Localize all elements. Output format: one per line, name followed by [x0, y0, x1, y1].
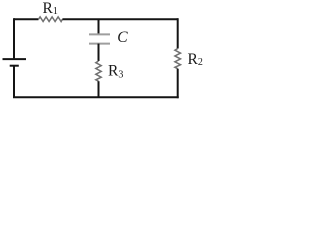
- battery short plate: [10, 65, 19, 67]
- resistor R1: [39, 17, 63, 22]
- svg-text:C: C: [117, 29, 128, 46]
- wire middle lower (R3 to bottom): [98, 81, 100, 97]
- svg-text:R1: R1: [43, 0, 58, 17]
- wire right lower: [177, 69, 179, 99]
- wire top-left segment: [14, 18, 39, 20]
- wire left lower (battery to bottom): [13, 66, 15, 98]
- resistor R2: [175, 49, 181, 69]
- wire left upper (to battery): [13, 18, 15, 58]
- svg-text:R2: R2: [188, 51, 203, 68]
- wire middle (capacitor to R3): [98, 44, 100, 61]
- wire middle upper (top to capacitor): [98, 19, 100, 34]
- wire top-right segment: [62, 18, 177, 20]
- capacitor C top plate: [89, 33, 110, 35]
- svg-text:R3: R3: [108, 63, 123, 81]
- capacitor C bottom plate: [89, 43, 110, 45]
- wire bottom: [13, 96, 179, 98]
- battery long plate: [3, 58, 27, 60]
- wire right upper: [177, 18, 179, 48]
- resistor R3: [96, 61, 101, 81]
